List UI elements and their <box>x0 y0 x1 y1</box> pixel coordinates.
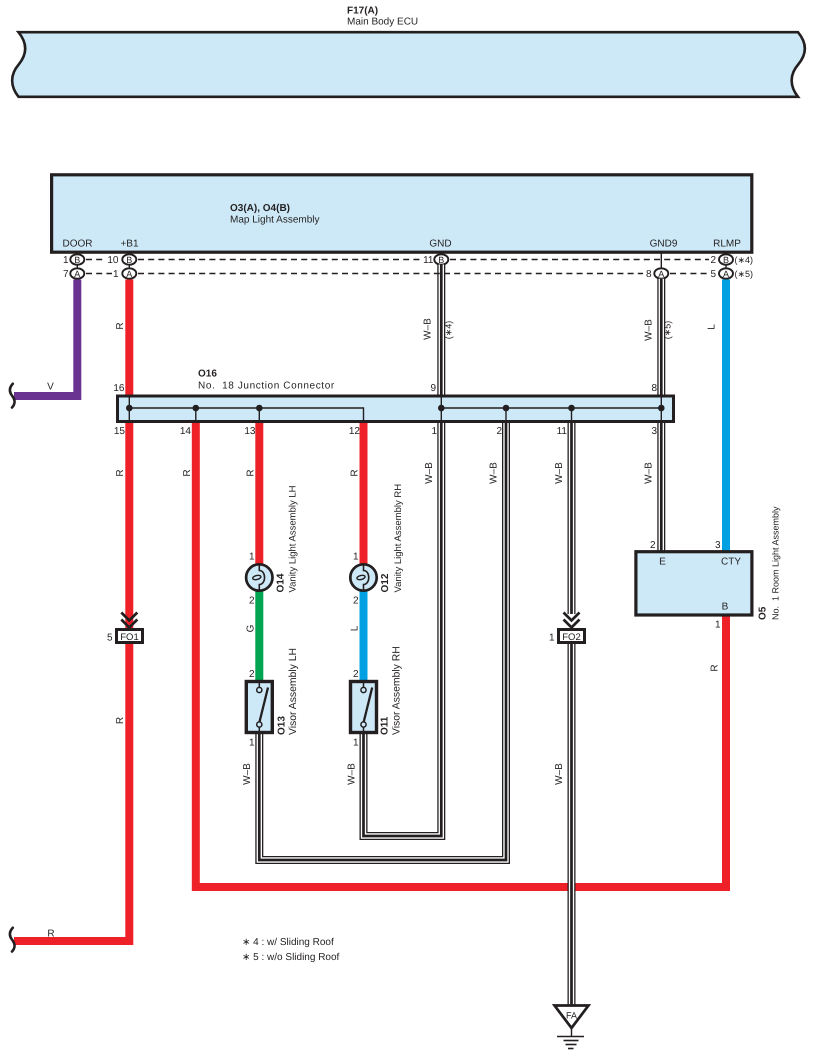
svg-text:Vanity Light Assembly LH: Vanity Light Assembly LH <box>288 485 299 592</box>
svg-text:Vanity Light Assembly RH: Vanity Light Assembly RH <box>393 484 404 593</box>
wire W-B visor RH to junction pin 1 <box>364 421 442 836</box>
svg-text:Visor Assembly RH: Visor Assembly RH <box>392 646 403 735</box>
svg-text:R: R <box>246 469 257 476</box>
wire W-B junction pin 11 to FO2 <box>568 421 576 614</box>
visor assembly LH switch O13 <box>246 682 272 733</box>
svg-text:(∗5): (∗5) <box>663 321 673 340</box>
svg-text:R: R <box>115 322 126 329</box>
svg-text:1: 1 <box>353 738 359 749</box>
svg-text:1: 1 <box>113 269 119 280</box>
svg-text:O13: O13 <box>277 716 288 735</box>
svg-text:O3(A), O4(B): O3(A), O4(B) <box>230 203 290 214</box>
svg-text:E: E <box>659 557 666 568</box>
wire R junction pin 14 down right and up to room light B <box>196 422 726 888</box>
svg-text:R: R <box>350 469 361 476</box>
svg-text:No. 18 Junction Connector: No. 18 Junction Connector <box>198 381 335 392</box>
svg-text:1: 1 <box>353 552 359 563</box>
wire W-B GND9 to junction pin 8 <box>657 279 665 396</box>
wire R junction pin 13 to vanity LH <box>255 422 263 565</box>
svg-text:W–B: W–B <box>347 763 358 785</box>
svg-text:R: R <box>182 469 193 476</box>
junction internal pin lines <box>129 397 661 421</box>
svg-text:DOOR: DOOR <box>63 239 93 250</box>
junction connector O16 bar <box>118 396 674 422</box>
svg-text:F17(A): F17(A) <box>347 6 378 17</box>
svg-text:B: B <box>126 255 132 265</box>
svg-text:2: 2 <box>249 669 255 680</box>
svg-text:(∗4): (∗4) <box>735 255 754 265</box>
wire L RLMP to room light CTY <box>722 280 730 552</box>
svg-text:13: 13 <box>244 426 256 437</box>
pin ellipse +B1 B <box>122 254 136 264</box>
svg-text:O14: O14 <box>276 573 287 592</box>
svg-text:W–B: W–B <box>424 462 435 484</box>
svg-text:9: 9 <box>430 383 436 394</box>
svg-text:B: B <box>723 255 729 265</box>
svg-text:R: R <box>47 929 54 940</box>
wire V purple DOOR <box>14 280 77 397</box>
svg-text:W–B: W–B <box>644 319 655 341</box>
wire G vanity LH to visor LH <box>255 591 263 681</box>
svg-text:L: L <box>707 324 718 330</box>
svg-text:+B1: +B1 <box>120 239 139 250</box>
svg-text:2: 2 <box>710 255 716 266</box>
svg-text:RLMP: RLMP <box>713 239 741 250</box>
svg-text:B: B <box>438 255 444 265</box>
connector row A dashed line <box>86 273 709 275</box>
svg-text:2: 2 <box>496 426 502 437</box>
svg-text:11: 11 <box>557 426 568 437</box>
svg-text:W–B: W–B <box>554 462 565 484</box>
svg-text:CTY: CTY <box>721 557 741 568</box>
svg-text:W–B: W–B <box>423 318 434 340</box>
svg-text:7: 7 <box>63 269 69 280</box>
svg-text:1: 1 <box>715 620 721 631</box>
svg-text:2: 2 <box>353 596 359 607</box>
room light assembly O5 box <box>636 552 752 615</box>
svg-text:(∗5): (∗5) <box>735 269 754 279</box>
svg-text:W–B: W–B <box>554 763 565 785</box>
svg-text:L: L <box>350 625 361 631</box>
pin ellipse DOOR A <box>70 268 84 279</box>
svg-text:FO2: FO2 <box>562 632 580 643</box>
wire L vanity RH to visor RH <box>360 591 368 681</box>
break symbol left R <box>10 928 15 952</box>
svg-text:A: A <box>723 269 729 279</box>
svg-text:B: B <box>722 602 729 613</box>
pin ellipse GND B <box>434 254 448 264</box>
svg-text:1: 1 <box>431 426 437 437</box>
connector FO1 box <box>117 630 143 643</box>
svg-text:12: 12 <box>349 426 361 437</box>
pin ellipse +B1 A <box>122 268 136 279</box>
svg-text:∗ 4 : w/ Sliding Roof: ∗ 4 : w/ Sliding Roof <box>242 937 334 948</box>
svg-text:1: 1 <box>249 552 255 563</box>
svg-text:Main Body ECU: Main Body ECU <box>347 17 418 28</box>
svg-text:5: 5 <box>710 269 716 280</box>
junction node dots <box>126 405 665 412</box>
svg-text:R: R <box>115 469 126 476</box>
main body ECU F17(A) band <box>12 32 805 97</box>
wire R +B1 to junction pin 16 <box>125 280 133 397</box>
svg-text:Map Light Assembly: Map Light Assembly <box>230 215 320 226</box>
vanity light RH bulb O12 <box>350 564 376 590</box>
wire W-B FO2 to ground FA <box>568 644 576 1006</box>
pin ellipse GND9 A <box>654 268 668 279</box>
svg-text:A: A <box>74 269 80 279</box>
svg-text:10: 10 <box>107 255 119 266</box>
svg-text:15: 15 <box>114 426 126 437</box>
svg-text:B: B <box>74 255 80 265</box>
svg-text:W–B: W–B <box>242 763 253 785</box>
svg-text:O11: O11 <box>380 716 391 735</box>
svg-text:Visor Assembly LH: Visor Assembly LH <box>288 648 299 735</box>
svg-text:8: 8 <box>651 383 657 394</box>
svg-text:16: 16 <box>113 383 125 394</box>
wire W-B GND to junction pin 9 <box>437 265 445 397</box>
break symbol left V <box>10 384 15 408</box>
svg-text:(∗4): (∗4) <box>444 321 454 340</box>
svg-text:W–B: W–B <box>644 462 655 484</box>
svg-text:8: 8 <box>646 269 652 280</box>
svg-text:G: G <box>246 624 257 632</box>
svg-text:2: 2 <box>249 596 255 607</box>
svg-text:11: 11 <box>423 255 434 266</box>
visor assembly RH switch O11 <box>351 682 377 733</box>
svg-text:GND9: GND9 <box>650 239 678 250</box>
svg-text:∗ 5 : w/o Sliding Roof: ∗ 5 : w/o Sliding Roof <box>242 952 340 963</box>
svg-text:W–B: W–B <box>489 462 500 484</box>
svg-text:R: R <box>710 664 721 671</box>
connector row B dashed line <box>86 259 709 261</box>
svg-text:R: R <box>115 717 126 724</box>
junction internal bus left <box>129 408 363 421</box>
svg-text:GND: GND <box>429 239 451 250</box>
connector FO2 chevrons <box>564 613 580 628</box>
svg-text:O5: O5 <box>758 606 769 620</box>
pin ellipse DOOR B <box>70 254 84 264</box>
svg-text:2: 2 <box>650 540 656 551</box>
svg-text:FA: FA <box>566 1011 577 1021</box>
ground FA symbol <box>555 1006 589 1049</box>
wire R junction pin 15 through FO1 down and left to break <box>14 422 129 942</box>
wire W-B junction pin 3 to room light E <box>657 421 665 551</box>
wire W-B visor LH to junction pin 2 <box>259 421 506 860</box>
pin ellipse RLMP A <box>719 268 733 279</box>
svg-text:1: 1 <box>549 633 555 644</box>
svg-text:3: 3 <box>651 426 657 437</box>
svg-text:3: 3 <box>715 540 721 551</box>
pin ellipse RLMP B <box>719 254 733 264</box>
connector FO1 chevrons <box>121 613 137 628</box>
svg-text:V: V <box>47 382 54 393</box>
map light assembly O3(A) O4(B) box <box>52 175 752 252</box>
connector FO2 box <box>559 630 585 643</box>
svg-text:5: 5 <box>107 633 113 644</box>
svg-text:14: 14 <box>180 426 192 437</box>
svg-text:1: 1 <box>63 255 69 266</box>
svg-text:No. 1 Room Light Assembly: No. 1 Room Light Assembly <box>771 506 781 620</box>
svg-text:A: A <box>126 269 132 279</box>
svg-text:2: 2 <box>353 669 359 680</box>
svg-text:O16: O16 <box>198 369 217 380</box>
svg-text:A: A <box>658 269 664 279</box>
svg-text:O12: O12 <box>380 573 391 592</box>
wire R junction pin 12 to vanity RH <box>360 422 368 565</box>
pin stubs <box>77 251 726 270</box>
svg-text:1: 1 <box>249 738 255 749</box>
svg-text:FO1: FO1 <box>120 632 138 643</box>
junction internal bus right <box>441 407 661 409</box>
vanity light LH bulb O14 <box>246 564 272 590</box>
